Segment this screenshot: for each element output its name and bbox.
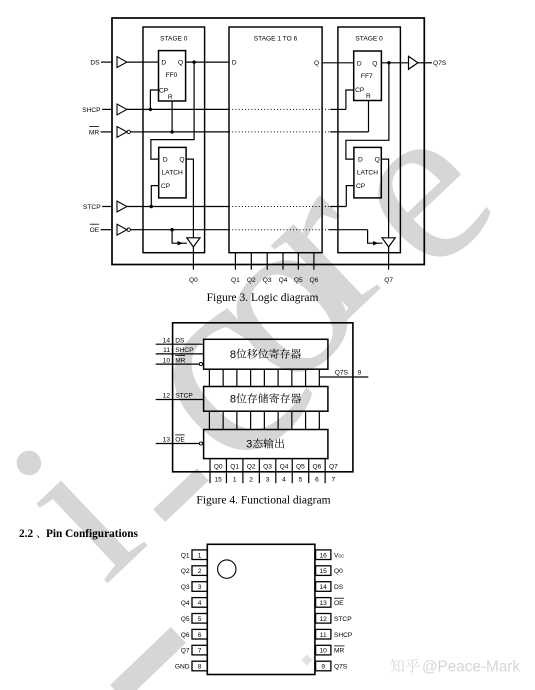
svg-text:Q5: Q5: [294, 277, 303, 284]
svg-text:Q4: Q4: [181, 600, 190, 607]
svg-text:Q6: Q6: [181, 632, 190, 639]
svg-text:Q7: Q7: [384, 277, 393, 284]
svg-text:Figure 4. Functional diagram: Figure 4. Functional diagram: [196, 495, 330, 507]
svg-text:1: 1: [198, 552, 202, 559]
svg-text:D: D: [163, 157, 168, 164]
svg-text:D: D: [161, 60, 166, 67]
svg-text:CP: CP: [356, 183, 366, 190]
svg-text:OE: OE: [334, 600, 344, 607]
svg-text:DS: DS: [175, 337, 185, 344]
svg-text:15: 15: [320, 568, 328, 575]
svg-text:STAGE 1 TO 6: STAGE 1 TO 6: [254, 36, 298, 43]
svg-text:Q1: Q1: [181, 552, 190, 559]
svg-text:Q0: Q0: [214, 463, 223, 470]
svg-text:D: D: [358, 157, 363, 164]
svg-text:FF7: FF7: [361, 73, 373, 80]
svg-text:Q7: Q7: [181, 648, 190, 655]
svg-text:D: D: [232, 60, 237, 67]
svg-text:Q7S: Q7S: [335, 370, 349, 377]
svg-text:Q: Q: [179, 157, 184, 164]
svg-text:Q: Q: [372, 60, 377, 67]
svg-text:12: 12: [320, 616, 328, 623]
svg-text:2: 2: [249, 477, 253, 484]
svg-text:Q3: Q3: [263, 277, 272, 284]
svg-text:9: 9: [358, 370, 362, 377]
svg-text:11: 11: [163, 347, 170, 354]
svg-text:Q0: Q0: [189, 277, 198, 284]
svg-text:Q7S: Q7S: [433, 60, 447, 67]
svg-text:Q2: Q2: [247, 277, 256, 284]
svg-text:SHCP: SHCP: [175, 347, 194, 354]
svg-text:10: 10: [163, 357, 171, 364]
svg-text:Q0: Q0: [334, 568, 343, 575]
svg-text:LATCH: LATCH: [162, 170, 183, 177]
svg-text:GND: GND: [175, 664, 190, 671]
svg-text:OE: OE: [175, 437, 185, 444]
svg-text:13: 13: [163, 437, 171, 444]
svg-text:10: 10: [320, 648, 328, 655]
svg-text:STCP: STCP: [83, 204, 101, 211]
svg-text:14: 14: [320, 584, 328, 591]
svg-text:Q: Q: [314, 60, 319, 67]
svg-text:CP: CP: [355, 87, 365, 94]
svg-text:Q7: Q7: [329, 463, 338, 470]
svg-text:Q4: Q4: [279, 277, 288, 284]
svg-text:Q5: Q5: [296, 463, 305, 470]
svg-text:R: R: [366, 93, 371, 100]
svg-text:6: 6: [198, 632, 202, 639]
svg-text:CP: CP: [161, 183, 171, 190]
svg-text:Pin Configurations: Pin Configurations: [46, 528, 139, 540]
svg-text:8: 8: [198, 664, 202, 671]
svg-text:STAGE 0: STAGE 0: [355, 36, 383, 43]
svg-text:Q: Q: [178, 60, 183, 67]
svg-text:DS: DS: [334, 584, 344, 591]
svg-text:MR: MR: [175, 357, 185, 364]
svg-text:STCP: STCP: [334, 616, 352, 623]
svg-text:12: 12: [163, 393, 171, 400]
svg-text:Figure 3. Logic diagram: Figure 3. Logic diagram: [207, 292, 319, 304]
svg-text:5: 5: [299, 477, 303, 484]
svg-text:Q: Q: [375, 157, 380, 164]
svg-text:2: 2: [198, 568, 202, 575]
svg-text:16: 16: [320, 552, 328, 559]
svg-text:3: 3: [246, 439, 252, 451]
svg-text:15: 15: [215, 477, 223, 484]
svg-text:MR: MR: [89, 129, 99, 136]
svg-text:9: 9: [321, 664, 325, 671]
svg-text:Q7S: Q7S: [334, 664, 348, 671]
svg-text:4: 4: [282, 477, 286, 484]
svg-text:Q6: Q6: [313, 463, 322, 470]
svg-text:2.2: 2.2: [19, 528, 33, 540]
svg-text:Q3: Q3: [181, 584, 190, 591]
svg-text:1: 1: [233, 477, 237, 484]
svg-text:8: 8: [230, 393, 236, 405]
svg-text:14: 14: [163, 337, 171, 344]
svg-text:STCP: STCP: [175, 393, 193, 400]
svg-text:LATCH: LATCH: [357, 170, 378, 177]
svg-text:D: D: [357, 60, 362, 67]
svg-text:7: 7: [332, 477, 336, 484]
svg-text:MR: MR: [334, 648, 344, 655]
svg-text:Q3: Q3: [263, 463, 272, 470]
svg-text:Vcc: Vcc: [334, 552, 344, 559]
svg-text:Q4: Q4: [280, 463, 289, 470]
svg-text:Q2: Q2: [181, 568, 190, 575]
svg-text:Q6: Q6: [310, 277, 319, 284]
svg-text:Q1: Q1: [230, 463, 239, 470]
svg-text:Q2: Q2: [247, 463, 256, 470]
svg-text:6: 6: [315, 477, 319, 484]
svg-text:SHCP: SHCP: [82, 107, 101, 114]
svg-text:3: 3: [266, 477, 270, 484]
svg-text:3: 3: [198, 584, 202, 591]
svg-text:Q5: Q5: [181, 616, 190, 623]
svg-text:DS: DS: [90, 60, 100, 67]
svg-text:OE: OE: [90, 227, 100, 234]
svg-text:8: 8: [230, 349, 236, 361]
svg-text:13: 13: [320, 600, 328, 607]
svg-text:SHCP: SHCP: [334, 632, 353, 639]
svg-text:@Peace-Mark: @Peace-Mark: [422, 659, 520, 676]
svg-text:5: 5: [198, 616, 202, 623]
svg-text:11: 11: [320, 632, 327, 639]
svg-text:STAGE 0: STAGE 0: [160, 36, 188, 43]
svg-text:4: 4: [198, 600, 202, 607]
svg-text:Q1: Q1: [231, 277, 240, 284]
svg-text:FF0: FF0: [166, 72, 178, 79]
svg-text:7: 7: [198, 648, 202, 655]
svg-text:R: R: [168, 94, 173, 101]
